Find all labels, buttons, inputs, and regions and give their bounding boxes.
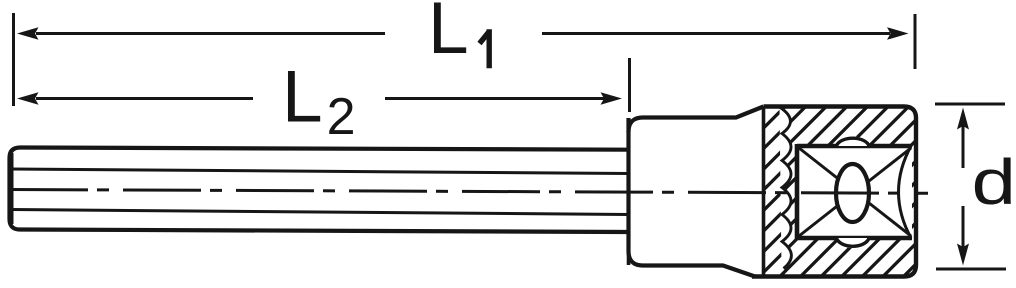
svg-text:L: L	[282, 57, 323, 138]
shaft hex edge lower	[11, 210, 629, 215]
cavity white mask (square drive hole + domes)	[797, 137, 912, 249]
section boundary vertical line	[762, 107, 766, 277]
detent dome bottom	[837, 238, 870, 246]
socket body outline	[752, 107, 916, 277]
hatch section lines	[593, 105, 1016, 279]
left dimension extension line	[12, 13, 15, 106]
d down arrow	[957, 206, 969, 266]
L1 dimension line left segment	[17, 27, 385, 40]
center line (dash-dot)	[10, 190, 928, 194]
d dimension bottom line	[936, 268, 1006, 271]
far wall curve	[899, 146, 912, 238]
socket neck outline	[629, 118, 756, 277]
d dimension top line	[935, 103, 1005, 106]
L2 right tick	[628, 58, 631, 112]
ball hole ellipse	[836, 164, 869, 222]
L2 dimension line right segment	[385, 92, 622, 105]
shaft hex edge upper	[11, 169, 629, 174]
cavity diagonals (X)	[799, 148, 911, 236]
shaft end cap	[9, 153, 14, 224]
svg-text:d: d	[972, 147, 1016, 219]
detent dome top	[837, 138, 870, 146]
scallop break line stroke	[780, 107, 792, 269]
scallop break line white fill	[780, 107, 792, 269]
L1 right tick	[914, 14, 917, 69]
neck face vertical line	[627, 118, 631, 265]
shaft outline (hex rod)	[10, 148, 629, 233]
d up arrow	[957, 108, 969, 169]
L1 dimension line right segment	[542, 27, 909, 40]
L2 dimension line left segment	[17, 92, 253, 105]
svg-text:L: L	[428, 0, 469, 69]
square drive cavity outline	[797, 144, 912, 240]
svg-text:2: 2	[327, 88, 356, 146]
